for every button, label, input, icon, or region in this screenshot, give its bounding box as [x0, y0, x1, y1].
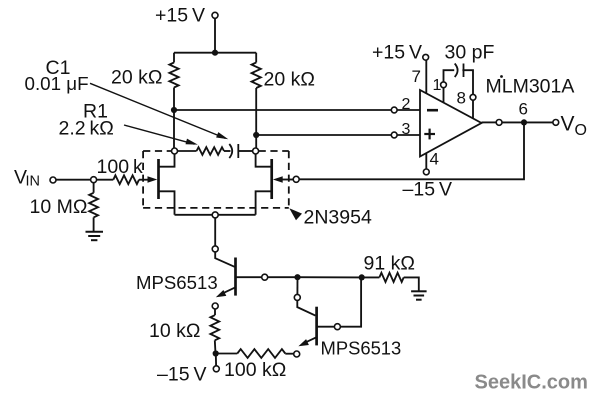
label V_IN — [14, 167, 40, 190]
wire right gate lead — [282, 179, 294, 181]
transistor Q1 collector lead — [215, 252, 234, 267]
label 30 pF — [445, 42, 495, 64]
node circle Q2 emitter — [294, 351, 300, 357]
wire 20k-left bottom lead — [173, 88, 175, 111]
svg-text:3: 3 — [402, 121, 411, 138]
label pin 8 — [457, 89, 466, 108]
wire 30pF to pin8 — [462, 70, 473, 94]
wire 10k top lead — [214, 309, 216, 315]
svg-text:2.2 kΩ: 2.2 kΩ — [59, 118, 114, 140]
label 20 kOhm left — [111, 67, 162, 89]
JFET left channel bar — [157, 159, 160, 199]
terminal +15V top — [212, 12, 218, 18]
label 2N3954 — [304, 207, 372, 229]
junction node pin3/right-drain — [253, 132, 259, 138]
label pin 7 — [412, 67, 421, 86]
transistor Q1 emitter lead — [220, 287, 236, 294]
svg-text:V: V — [561, 113, 575, 136]
svg-text:+15 V: +15 V — [372, 42, 422, 64]
terminal pin 3 — [391, 132, 397, 138]
wire 91k to ground — [404, 277, 419, 291]
wire 20k-right top lead — [255, 53, 257, 63]
wire to -15V terminal — [215, 354, 217, 366]
op-amp plus sign — [424, 129, 435, 140]
wire +15V stem — [214, 18, 216, 52]
wire 100k to gate — [139, 179, 150, 181]
node circle Q1 collector — [212, 246, 218, 252]
wire op-amp output — [482, 121, 497, 123]
svg-text:6: 6 — [519, 100, 528, 119]
svg-text:1: 1 — [433, 77, 442, 94]
svg-text:MLM301A: MLM301A — [486, 76, 575, 98]
terminal pin 2 — [391, 107, 397, 113]
JFET left source lead — [159, 191, 175, 215]
terminal V_O — [553, 120, 559, 126]
terminal +15V op-amp — [423, 54, 429, 60]
terminal V_IN — [50, 177, 56, 183]
terminal pin 6 — [496, 120, 502, 126]
label V_O — [561, 113, 587, 139]
svg-text:10 MΩ: 10 MΩ — [30, 196, 88, 218]
wire pin1 to 30pF — [444, 70, 455, 82]
wire left drain column — [173, 110, 175, 148]
label -15 V (op-amp) — [403, 179, 452, 201]
wire pin 7 — [425, 60, 427, 93]
label pin 3 — [402, 121, 411, 138]
label +15 V (op-amp) — [372, 42, 422, 64]
svg-text:7: 7 — [412, 67, 421, 86]
label 10 kOhm — [149, 320, 200, 342]
junction node pin2/left-drain — [171, 107, 177, 113]
svg-text:20 kΩ: 20 kΩ — [111, 67, 162, 89]
resistor 100 kOhm — [237, 349, 285, 358]
node circle Q2 collector — [294, 294, 300, 300]
capacitor C1 0.01uF — [229, 144, 238, 158]
transistor Q2 emitter arrow — [298, 339, 309, 346]
wire right drain column — [255, 135, 257, 149]
node circle right gate — [293, 176, 299, 182]
watermark SeekIC.com — [475, 372, 588, 394]
label 0.01 uF — [25, 73, 89, 94]
label 20 kOhm right — [264, 69, 315, 91]
ground input — [86, 232, 104, 240]
svg-text:30 pF: 30 pF — [445, 42, 495, 64]
wire pin6 to junction — [502, 121, 524, 123]
svg-text:100 kΩ: 100 kΩ — [224, 359, 286, 381]
transistor Q1 emitter arrow — [216, 290, 227, 297]
resistor R1 2.2k — [197, 147, 225, 155]
dashed box left edge — [142, 151, 144, 208]
svg-text:20 kΩ: 20 kΩ — [264, 69, 315, 91]
wire feedback — [299, 122, 524, 179]
label C1 — [46, 57, 71, 79]
wire node-B to op-amp pin3 — [256, 134, 391, 136]
label 10 MOhm — [30, 196, 88, 218]
wire source bus — [175, 214, 256, 216]
svg-text:O: O — [575, 122, 587, 139]
svg-text:2: 2 — [402, 96, 411, 113]
dashed box bottom edge — [143, 207, 289, 209]
transistor Q1 base bar — [234, 258, 237, 296]
svg-text:MPS6513: MPS6513 — [136, 272, 218, 293]
wire base line to 91k — [298, 276, 362, 278]
junction output — [521, 119, 527, 125]
resistor 91 kOhm — [379, 273, 403, 282]
op-amp minus sign — [427, 109, 438, 112]
svg-text:IN: IN — [26, 174, 41, 190]
label 91 kOhm — [364, 253, 415, 275]
label MPS6513 (Q1) — [136, 272, 218, 293]
wire -15V node to 100k — [216, 353, 238, 355]
label R1 — [83, 100, 108, 122]
node circle input divider — [91, 177, 97, 183]
wire pin 1 — [443, 88, 445, 103]
node circle Q1 emitter — [212, 303, 218, 309]
transistor Q2 collector lead — [297, 301, 315, 316]
wire VIN to node — [56, 179, 91, 181]
wire Q1 base line — [268, 276, 298, 278]
svg-text:4: 4 — [430, 150, 439, 169]
svg-text:2N3954: 2N3954 — [304, 207, 372, 229]
svg-text:100 k: 100 k — [97, 156, 143, 178]
label 100 kOhm — [224, 359, 286, 381]
op-amp U1 triangle — [420, 90, 482, 157]
wire 20k-right bottom lead — [255, 88, 257, 135]
node circle pin 8 — [470, 94, 476, 100]
resistor 20 kOhm left — [169, 63, 178, 88]
pointer arrow R1 to resistor — [124, 125, 198, 145]
junction -15V node — [213, 350, 219, 356]
label MLM301A — [486, 75, 575, 97]
wire R1-C1 link — [224, 150, 231, 152]
svg-text:–15 V: –15 V — [157, 364, 206, 386]
label pin 2 — [402, 96, 411, 113]
pointer arrow 2N3954 — [289, 208, 302, 220]
capacitor 30 pF — [455, 64, 464, 78]
wire pin 4 — [425, 153, 427, 169]
wire 100k to Q2 emitter — [285, 353, 293, 355]
svg-text:MPS6513: MPS6513 — [321, 338, 402, 359]
node circle Q2 base — [334, 324, 340, 330]
wire C1 right lead — [238, 150, 252, 152]
svg-text:SeekIC.com: SeekIC.com — [475, 372, 588, 394]
ground 91k — [411, 291, 427, 299]
wire R1 left lead — [178, 150, 197, 152]
wire pin3 to op-amp — [397, 134, 420, 136]
resistor 10 MOhm — [89, 193, 98, 218]
svg-text:–15 V: –15 V — [403, 179, 452, 201]
node circle right drain/C1 — [253, 148, 259, 154]
wire pin 8 — [472, 100, 474, 118]
wire 91k left lead — [362, 276, 380, 278]
wire 10M top lead — [93, 183, 95, 193]
node circle left drain/R1 — [172, 148, 178, 154]
JFET left drain lead — [159, 154, 175, 167]
dashed box top edge left part — [143, 150, 171, 152]
svg-text:8: 8 — [457, 89, 466, 108]
dashed box right edge — [288, 151, 290, 208]
junction 91k node — [359, 274, 365, 280]
terminal -15V bottom — [213, 366, 219, 372]
transistor Q2 emitter lead — [303, 337, 317, 344]
wire top rail — [174, 52, 256, 54]
label pin 4 — [430, 150, 439, 169]
label +15 V (top supply) — [155, 5, 205, 27]
node circle Q1 base — [262, 274, 268, 280]
transistor Q1 base lead — [236, 276, 262, 278]
JFET right gate arrow — [273, 176, 283, 182]
svg-text:10 kΩ: 10 kΩ — [149, 320, 200, 342]
label MPS6513 (Q2) — [321, 338, 402, 359]
label pin 6 — [519, 100, 528, 119]
label pin 1 — [433, 77, 442, 94]
resistor 20 kOhm right — [252, 63, 261, 89]
wire Q2 base to bias node — [340, 277, 361, 326]
label -15 V (bottom) — [157, 364, 206, 386]
transistor Q2 base lead — [317, 326, 335, 328]
wire 10M to ground — [93, 217, 95, 231]
wire Q2 collector to base line — [296, 277, 298, 294]
transistor Q2 base bar — [315, 307, 318, 346]
JFET left gate arrow — [148, 176, 158, 182]
dashed box top edge right part — [259, 150, 289, 152]
junction top rail — [212, 50, 218, 56]
wire 10k bottom lead — [214, 340, 217, 353]
wire node-A to op-amp pin2 — [174, 109, 391, 111]
node circle pin 1 — [441, 82, 447, 88]
label 100 k — [97, 156, 143, 178]
resistor 100 k input — [113, 175, 139, 184]
terminal -15V op-amp — [423, 169, 429, 175]
node circle source bus — [212, 212, 218, 218]
JFET right channel bar — [270, 159, 273, 199]
label 2.2 kOhm — [59, 118, 114, 140]
JFET right drain lead — [256, 154, 272, 167]
wire bus to Q1 collector — [214, 218, 216, 246]
svg-text:0.01 μF: 0.01 μF — [25, 73, 89, 94]
svg-text:+15 V: +15 V — [155, 5, 205, 27]
junction base line / Q2 — [294, 274, 300, 280]
wire pin2 to op-amp — [397, 109, 420, 111]
JFET right source lead — [256, 191, 272, 215]
wire 20k-left top lead — [173, 53, 175, 63]
resistor 10 kOhm — [210, 315, 219, 340]
wire to 100k — [97, 179, 114, 181]
wire junction to VO — [524, 121, 553, 123]
svg-text:91 kΩ: 91 kΩ — [364, 253, 415, 275]
pointer arrow C1 to capacitor — [90, 83, 228, 139]
